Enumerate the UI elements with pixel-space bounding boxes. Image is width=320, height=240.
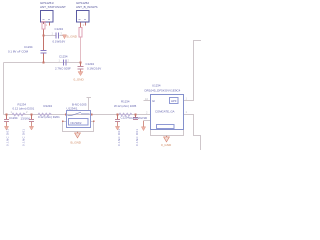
- svg-text:13/16V: 13/16V: [21, 117, 30, 121]
- svg-text:ANT_B_IN/GPS: ANT_B_IN/GPS: [76, 5, 98, 9]
- svg-text:0_GND: 0_GND: [161, 143, 172, 147]
- svg-text:R1234: R1234: [44, 104, 53, 108]
- svg-text:0.1NC D01: 0.1NC D01: [135, 129, 139, 146]
- svg-text:0.1NC D01: 0.1NC D01: [117, 129, 121, 146]
- svg-text:0.12 (ohm) D201: 0.12 (ohm) D201: [13, 107, 35, 111]
- svg-text:R1234: R1234: [121, 100, 130, 104]
- svg-text:U1234: U1234: [152, 84, 161, 88]
- svg-text:W.12 (ohm) 1005: W.12 (ohm) 1005: [114, 104, 137, 108]
- svg-text:GI: GI: [152, 99, 155, 103]
- svg-text:C1234: C1234: [55, 27, 64, 31]
- svg-text:HPF: HPF: [171, 99, 177, 103]
- svg-text:0.1NC D01: 0.1NC D01: [22, 129, 26, 146]
- svg-text:0.1 8V uF COM: 0.1 8V uF COM: [8, 50, 29, 54]
- svg-text:NC/SW2: NC/SW2: [71, 121, 82, 125]
- svg-text:DR1045_DF5KGVV1E9C4: DR1045_DF5KGVV1E9C4: [145, 89, 181, 93]
- svg-text:16V/1D: 16V/1D: [138, 116, 148, 120]
- svg-text:B_GND: B_GND: [71, 141, 82, 145]
- svg-text:COMGATE_GA: COMGATE_GA: [155, 110, 175, 114]
- svg-text:0.12 (ohm) D201: 0.12 (ohm) D201: [38, 115, 60, 119]
- svg-text:C1234: C1234: [59, 55, 68, 59]
- svg-text:0.1W/16V: 0.1W/16V: [53, 40, 66, 44]
- svg-text:0.1NC D01: 0.1NC D01: [6, 129, 10, 146]
- svg-text:C1234: C1234: [9, 116, 18, 120]
- svg-text:0_GND: 0_GND: [74, 78, 85, 82]
- svg-text:0.1NC/16V: 0.1NC/16V: [87, 67, 101, 71]
- svg-text:ANT_STATUS/ANT: ANT_STATUS/ANT: [40, 5, 66, 9]
- svg-text:C1234: C1234: [24, 45, 33, 49]
- svg-text:B_GND: B_GND: [67, 35, 78, 39]
- svg-text:C1234: C1234: [86, 62, 95, 66]
- svg-text:U1234/1: U1234/1: [67, 107, 78, 111]
- svg-text:2.7NC-503F: 2.7NC-503F: [55, 67, 71, 71]
